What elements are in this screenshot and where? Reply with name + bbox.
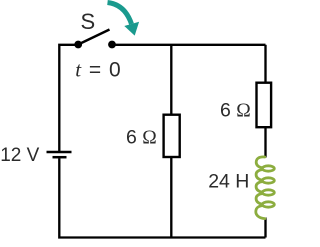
svg-text:6 Ω: 6 Ω [126,126,157,148]
svg-text:6 Ω: 6 Ω [220,100,251,122]
svg-text:t = 0: t = 0 [75,57,121,81]
svg-text:24 H: 24 H [208,170,249,192]
svg-text:S: S [81,9,96,34]
svg-text:12 V: 12 V [0,145,39,166]
